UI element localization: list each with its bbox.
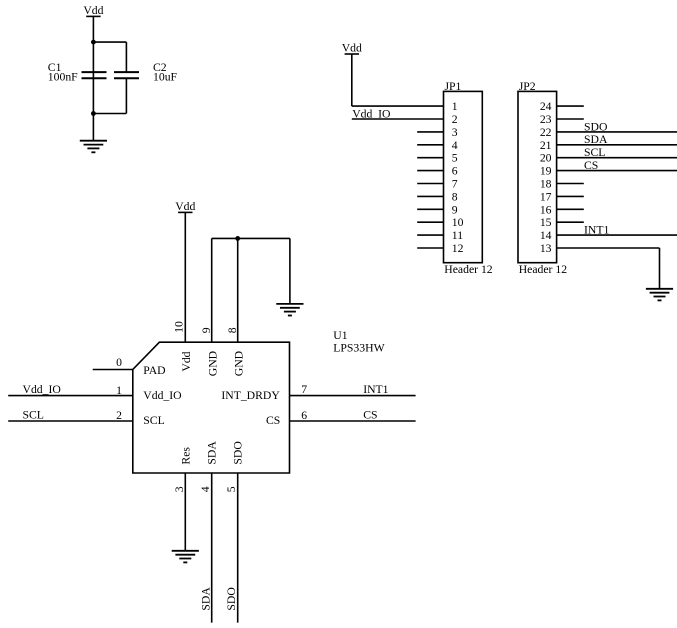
svg-text:SDO: SDO	[225, 587, 238, 610]
svg-text:CS: CS	[266, 414, 280, 427]
svg-text:INT1: INT1	[584, 224, 609, 237]
svg-text:SDA: SDA	[206, 441, 219, 465]
svg-text:20: 20	[540, 152, 552, 165]
svg-text:1: 1	[452, 100, 458, 113]
svg-text:SDO: SDO	[584, 120, 607, 133]
svg-text:12: 12	[452, 242, 464, 255]
svg-text:GND: GND	[206, 351, 219, 376]
svg-text:SDA: SDA	[584, 133, 608, 146]
svg-text:23: 23	[540, 113, 552, 126]
svg-text:5: 5	[452, 152, 458, 165]
svg-text:9: 9	[452, 203, 458, 216]
svg-text:0: 0	[116, 356, 122, 369]
svg-text:10: 10	[452, 216, 464, 229]
svg-text:Vdd: Vdd	[342, 41, 362, 54]
svg-text:7: 7	[301, 383, 307, 396]
svg-text:13: 13	[540, 242, 552, 255]
svg-text:Vdd_IO: Vdd_IO	[352, 107, 390, 120]
svg-text:10: 10	[173, 321, 186, 333]
svg-text:PAD: PAD	[143, 364, 165, 377]
svg-text:SCL: SCL	[143, 414, 164, 427]
svg-text:Vdd_IO: Vdd_IO	[23, 383, 61, 396]
svg-text:Header 12: Header 12	[519, 263, 568, 276]
svg-text:4: 4	[452, 139, 458, 152]
svg-text:3: 3	[452, 126, 458, 139]
svg-text:SCL: SCL	[584, 146, 605, 159]
svg-text:6: 6	[452, 165, 458, 178]
svg-text:24: 24	[540, 100, 552, 113]
svg-text:Res: Res	[179, 447, 192, 465]
svg-text:Vdd: Vdd	[175, 200, 195, 213]
svg-text:21: 21	[540, 139, 552, 152]
svg-text:Vdd_IO: Vdd_IO	[143, 389, 181, 402]
svg-text:Vdd: Vdd	[83, 4, 103, 17]
svg-text:22: 22	[540, 126, 552, 139]
svg-text:19: 19	[540, 165, 552, 178]
svg-text:SDA: SDA	[199, 587, 212, 611]
svg-text:7: 7	[452, 178, 458, 191]
svg-text:INT1: INT1	[363, 383, 388, 396]
svg-text:JP1: JP1	[445, 80, 462, 93]
svg-text:SCL: SCL	[23, 409, 44, 422]
svg-text:LPS33HW: LPS33HW	[333, 341, 385, 354]
svg-text:SDO: SDO	[232, 441, 245, 464]
svg-text:4: 4	[199, 486, 212, 492]
svg-text:10uF: 10uF	[153, 71, 178, 84]
svg-text:15: 15	[540, 216, 552, 229]
svg-text:1: 1	[116, 384, 122, 397]
svg-text:16: 16	[540, 203, 552, 216]
svg-text:2: 2	[116, 409, 122, 422]
svg-text:INT_DRDY: INT_DRDY	[221, 389, 280, 402]
svg-text:11: 11	[452, 229, 463, 242]
svg-text:8: 8	[452, 190, 458, 203]
svg-text:14: 14	[540, 229, 552, 242]
svg-text:6: 6	[301, 409, 307, 422]
svg-text:Header 12: Header 12	[444, 263, 493, 276]
svg-text:CS: CS	[584, 159, 598, 172]
svg-text:GND: GND	[232, 351, 245, 376]
svg-text:CS: CS	[363, 408, 377, 421]
svg-text:17: 17	[540, 190, 552, 203]
svg-text:100nF: 100nF	[48, 71, 78, 84]
svg-text:2: 2	[452, 113, 458, 126]
svg-text:8: 8	[226, 327, 239, 333]
svg-text:U1: U1	[333, 329, 347, 342]
svg-text:18: 18	[540, 178, 552, 191]
svg-text:JP2: JP2	[519, 80, 536, 93]
svg-text:5: 5	[225, 486, 238, 492]
svg-text:Vdd: Vdd	[180, 351, 193, 371]
svg-text:9: 9	[200, 327, 213, 333]
svg-text:3: 3	[173, 486, 186, 492]
